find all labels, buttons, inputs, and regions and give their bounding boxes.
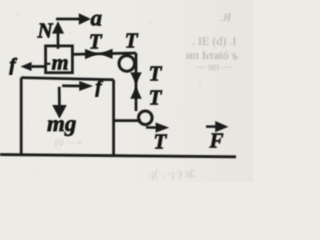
- arrowhead f lower: [79, 81, 93, 91]
- svg-text:T: T: [154, 130, 168, 154]
- svg-text:— ип —: — ип —: [195, 62, 233, 73]
- svg-text:.Я: .Я: [220, 10, 232, 24]
- wire rope vertical between pulleys: [135, 53, 138, 111]
- paper background: [0, 0, 253, 182]
- force f lower arrow line: [62, 84, 80, 87]
- force N arrow line: [57, 33, 60, 49]
- svg-text:T: T: [89, 29, 103, 53]
- force a arrow line: [56, 18, 80, 21]
- arrowhead T bottom: [156, 123, 170, 133]
- svg-text:· ·: · ·: [30, 168, 40, 180]
- arrowhead a: [79, 13, 91, 24]
- svg-text:F: F: [209, 128, 224, 152]
- scan speckles: [11, 11, 245, 169]
- svg-text:.¡(·. ·¡·) ͻ£: .¡(·. ·¡·) ͻ£: [148, 168, 196, 180]
- svg-text:a: a: [91, 6, 103, 31]
- arrowhead F: [215, 121, 228, 132]
- wire rope m to top pulley: [72, 53, 136, 54]
- wire rope block to bottom pulley: [114, 119, 141, 122]
- force T bottom arrow line: [146, 126, 158, 129]
- force f upper arrow line: [31, 65, 47, 68]
- pulley bottom: [139, 111, 153, 125]
- scan smudge left edge: [0, 88, 2, 136]
- arrowhead T right (bowtie on top rope): [85, 49, 98, 59]
- force mg arrow line: [58, 87, 61, 106]
- svg-text:m: m: [52, 49, 69, 74]
- arrowhead T up (vertical rope): [130, 87, 141, 99]
- big block left edge: [20, 78, 23, 155]
- svg-text:T: T: [149, 61, 163, 85]
- svg-text:T: T: [149, 86, 163, 110]
- big block right edge: [112, 80, 115, 156]
- svg-text:ип Ьтató ъ: ип Ьтató ъ: [186, 48, 238, 62]
- svg-text:N: N: [37, 18, 54, 42]
- ground line: [0, 155, 236, 157]
- svg-text:T: T: [125, 28, 139, 52]
- f arrow tail dash inside block m: [46, 63, 50, 65]
- big block top edge: [21, 78, 113, 80]
- svg-text:. IE (d) .I: . IE (d) .I: [192, 34, 236, 48]
- block m outline: [46, 46, 73, 73]
- pulley top: [119, 56, 135, 72]
- arrowhead N: [52, 21, 64, 33]
- force F arrow line: [206, 125, 216, 128]
- svg-text:(0 ·– =: (0 ·– =: [55, 138, 83, 149]
- arrowhead mg: [52, 105, 67, 119]
- arrowhead T left (bowtie on top rope): [100, 49, 113, 59]
- svg-text:mg: mg: [47, 111, 76, 136]
- arrowhead T down (vertical rope): [130, 72, 141, 84]
- arrowhead f upper: [21, 62, 32, 71]
